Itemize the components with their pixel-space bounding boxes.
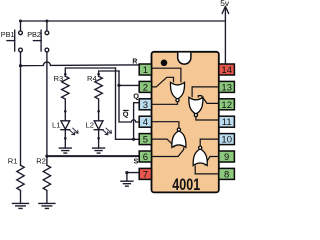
node R4 top	[97, 73, 100, 76]
pushbutton PB1	[20, 21, 22, 31]
ground L1	[59, 148, 71, 153]
ground L2	[93, 148, 105, 153]
pin 13	[219, 81, 235, 92]
svg-text:2: 2	[143, 82, 148, 93]
svg-text:5: 5	[143, 135, 148, 146]
svg-text:14: 14	[221, 65, 232, 76]
LED L1	[61, 121, 70, 129]
gate U1c output to pin 4	[152, 122, 179, 128]
NOR gate U1d	[193, 149, 207, 166]
pin 3	[139, 99, 151, 110]
wire S: PB2/R2 to pin 6	[47, 155, 140, 157]
wire top 5v rail	[21, 20, 226, 22]
pin 14	[219, 64, 235, 75]
node L2 anode	[97, 110, 100, 113]
node S junction	[45, 155, 48, 158]
svg-text:PB2: PB2	[27, 30, 41, 39]
svg-text:L2: L2	[86, 121, 94, 130]
NOR gate U1a	[170, 82, 207, 165]
node L1 anode	[64, 110, 67, 113]
pin1 dot	[161, 60, 168, 67]
resistor R3	[62, 76, 69, 120]
svg-text:13: 13	[221, 82, 232, 93]
node R3 top	[64, 73, 67, 76]
svg-text:1: 1	[143, 65, 148, 76]
pushbutton PB2	[46, 21, 48, 31]
node PB1 top junction	[19, 20, 22, 23]
ground R1	[13, 203, 29, 208]
ground pin7	[121, 181, 133, 186]
pin 2	[139, 81, 151, 92]
svg-text:5v: 5v	[220, 0, 230, 8]
pin 10	[219, 134, 235, 145]
node PB2 top junction	[45, 20, 48, 23]
svg-text:L1: L1	[52, 121, 60, 130]
resistor R2	[43, 165, 50, 203]
gate U1c inner wires from pins 5,6	[152, 139, 175, 147]
wire pin 7 to ground	[127, 173, 139, 181]
pin 9	[219, 151, 235, 162]
node Qbar to pin2 branch	[117, 84, 120, 87]
pin 7	[139, 168, 151, 179]
gate U1d inner wires from pins 9,8	[205, 157, 219, 166]
pin numbers	[143, 65, 232, 180]
pin 1	[139, 64, 151, 75]
pin 12	[219, 99, 235, 110]
svg-text:12: 12	[221, 100, 232, 111]
wire R4 top to Qbar vertical	[99, 71, 119, 76]
gate U1a output to pin 3	[152, 102, 178, 105]
wire Qbar net: down then right to pin 4 with hop over riser	[119, 71, 139, 122]
wire 5v riser	[224, 8, 226, 64]
resistor R4	[95, 76, 102, 120]
gate U1b inner wires from pins 13,12	[192, 87, 219, 97]
5v arrow head	[222, 7, 228, 14]
wire Qbar to pin 2	[119, 84, 139, 86]
svg-text:Q: Q	[133, 92, 139, 101]
svg-text:R1: R1	[8, 156, 18, 165]
svg-text:6: 6	[143, 152, 148, 163]
pin 8	[219, 168, 235, 179]
node wire R junction	[19, 64, 22, 67]
wire pin3 riser	[134, 103, 140, 140]
svg-text:8: 8	[224, 169, 229, 180]
pin 11	[219, 116, 235, 127]
LED L2	[94, 121, 103, 129]
node Q to pin3 riser junction	[132, 138, 135, 141]
wire Q net: down to pin5 row then right	[116, 68, 140, 139]
svg-text:R3: R3	[54, 74, 64, 83]
pin 5	[139, 134, 151, 145]
LED L2 arrows	[103, 130, 108, 135]
svg-text:PB1: PB1	[1, 30, 15, 39]
resistor R1	[17, 165, 24, 203]
wire R: PB1 to pin 1 with hop over PB2	[21, 62, 140, 66]
NOR gate U1c	[172, 131, 186, 148]
gate U1a inner wires from pins 1,2	[152, 68, 219, 174]
notch	[178, 53, 191, 65]
pin 6	[139, 151, 151, 162]
IC U1 body 4001	[152, 52, 219, 193]
pin boxes	[139, 64, 234, 179]
svg-text:7: 7	[143, 169, 148, 180]
svg-text:9: 9	[224, 152, 229, 163]
LED L1 arrows	[69, 130, 74, 135]
ground R2	[39, 203, 55, 208]
NOR gate U1b	[189, 97, 203, 114]
gate U1b output to pin 11	[196, 117, 219, 120]
svg-text:S: S	[134, 156, 139, 165]
gate U1d output to pin 10	[200, 139, 219, 146]
pin 4	[139, 116, 151, 127]
wire R3 top to Q vertical	[65, 68, 115, 76]
svg-text:11: 11	[222, 117, 232, 128]
svg-text:4: 4	[143, 117, 148, 128]
svg-text:4001: 4001	[172, 176, 200, 194]
svg-text:R4: R4	[87, 74, 97, 83]
svg-text:10: 10	[221, 135, 232, 146]
svg-text:3: 3	[143, 100, 148, 111]
svg-text:R2: R2	[36, 156, 46, 165]
svg-text:R: R	[132, 59, 137, 66]
